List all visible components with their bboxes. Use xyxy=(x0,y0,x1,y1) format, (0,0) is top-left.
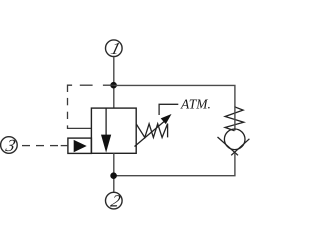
wire from port 1 to valve top xyxy=(113,57,115,108)
wire pilot dashed from junction (left then down) xyxy=(68,85,114,119)
svg-text:3: 3 xyxy=(3,136,18,155)
pilot actuator box xyxy=(68,138,92,153)
wire check valve to bottom line xyxy=(114,153,235,176)
wire pilot solid into valve left xyxy=(68,125,92,128)
node junction top xyxy=(110,82,117,89)
svg-text:2: 2 xyxy=(109,192,123,211)
vent line to ATM xyxy=(159,104,178,115)
check valve seat left arm xyxy=(218,137,239,155)
node junction bottom xyxy=(110,172,117,179)
wire valve bottom to port 2 xyxy=(113,153,115,192)
adjustment arrow through spring xyxy=(135,114,172,147)
flow path arrow inside valve xyxy=(101,108,111,153)
wire dashed from port 3 xyxy=(22,145,58,147)
check valve line through spring xyxy=(234,107,236,131)
pilot actuator triangle xyxy=(74,140,87,152)
port circle 2 xyxy=(106,192,123,211)
port circle 1 xyxy=(106,39,123,58)
spring (adjustable) right of valve xyxy=(136,124,167,138)
check valve spring xyxy=(225,107,244,131)
port circle 3 xyxy=(1,136,18,155)
svg-text:ATM.: ATM. xyxy=(180,96,211,111)
check valve seat right arm xyxy=(231,139,249,156)
svg-text:1: 1 xyxy=(109,39,123,58)
wire top horizontal to check valve xyxy=(114,85,235,107)
valve body U1 xyxy=(91,108,136,153)
check valve ball xyxy=(224,129,245,150)
wire stub into pilot box xyxy=(61,145,68,147)
